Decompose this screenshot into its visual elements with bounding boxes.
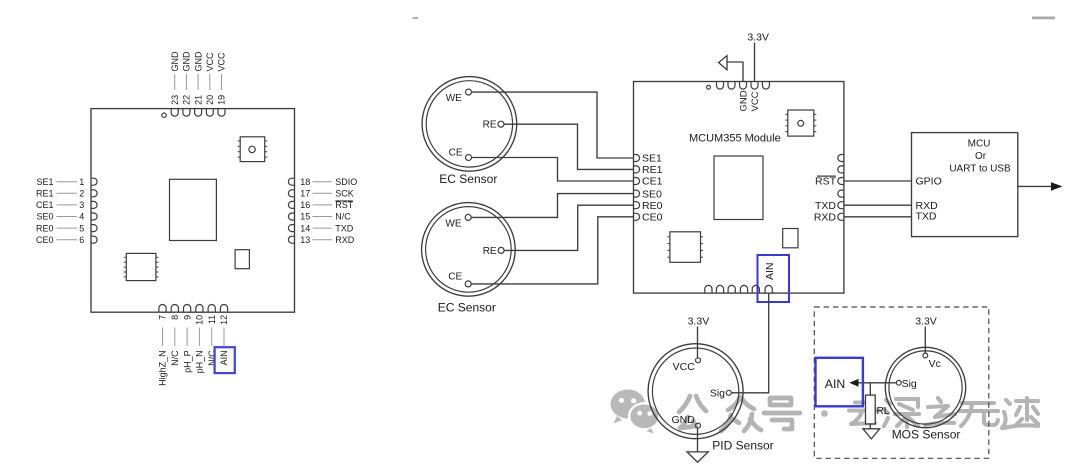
svg-text:EC Sensor: EC Sensor <box>438 301 496 315</box>
svg-text:AIN: AIN <box>764 263 776 281</box>
PID sensor body <box>648 344 743 439</box>
svg-text:CE: CE <box>448 272 462 283</box>
svg-text:GPIO: GPIO <box>916 176 942 188</box>
module left pin RE0 <box>634 200 663 212</box>
left chip pin 23 (GND) <box>170 51 180 116</box>
svg-text:19: 19 <box>217 95 227 105</box>
module left pin CE1 <box>634 176 663 188</box>
svg-text:CE0: CE0 <box>642 212 663 224</box>
module right pin row 1 <box>838 155 844 162</box>
left chip pin 21 (GND) <box>193 51 203 116</box>
3.3V supply to MOS Vc <box>915 316 937 353</box>
EC sensor 2 body <box>422 203 516 297</box>
svg-text:RXD: RXD <box>335 235 355 245</box>
MOS sensor terminal Sig <box>896 378 917 390</box>
svg-text:CE1: CE1 <box>642 176 663 188</box>
module right pin row 4 <box>838 190 844 197</box>
module bottom pin 4 <box>740 285 747 293</box>
MCU box title <box>949 138 1011 174</box>
svg-text:SE1: SE1 <box>36 177 53 187</box>
EC sensor 2 terminal CE <box>448 272 471 287</box>
left chip pin 1 indicator <box>162 113 166 117</box>
svg-text:WE: WE <box>445 218 461 229</box>
svg-text:RE0: RE0 <box>36 223 54 233</box>
svg-text:Sig: Sig <box>710 387 725 399</box>
svg-text:CE0: CE0 <box>36 235 54 245</box>
svg-text:21: 21 <box>193 95 203 105</box>
svg-text:RL: RL <box>877 406 890 417</box>
svg-text:SE0: SE0 <box>642 188 662 200</box>
MCU output arrow <box>1018 182 1063 191</box>
watermark dot <box>821 410 828 417</box>
svg-text:3: 3 <box>79 200 84 210</box>
svg-text:HighZ_N: HighZ_N <box>158 350 168 386</box>
module right pin row 3 <box>838 178 844 185</box>
left chip pin 2 (RE1) <box>36 189 97 199</box>
EC sensor 1 terminal RE <box>483 120 504 131</box>
wire module TXD to MCU RXD <box>844 204 912 206</box>
gray dash top left of right panel <box>413 17 419 19</box>
watermark char Wu <box>959 403 998 426</box>
left chip pin 6 (CE0) <box>36 235 97 245</box>
svg-text:SDIO: SDIO <box>335 177 357 187</box>
wire EC2 RE to RE0 <box>504 205 633 250</box>
svg-text:16: 16 <box>300 200 310 210</box>
module right pin row 6 <box>838 213 844 220</box>
wire EC2 WE to SE0 <box>471 194 633 218</box>
watermark char Yun <box>849 403 879 425</box>
svg-text:9: 9 <box>182 315 192 320</box>
module pin 1 indicator <box>707 85 711 89</box>
module left pin RE1 <box>634 164 663 176</box>
svg-text:RE: RE <box>483 120 497 131</box>
MOS sensor terminal Vc <box>923 353 941 370</box>
svg-text:CE: CE <box>449 148 463 159</box>
module internal main IC rectangle <box>714 156 763 220</box>
module bottom pin 6 <box>765 285 772 293</box>
PID sensor terminal VCC <box>673 358 701 373</box>
PID sensor terminal GND <box>671 414 700 428</box>
svg-text:13: 13 <box>300 235 310 245</box>
module left pin SE1 <box>634 153 663 165</box>
wire module RXD to MCU TXD <box>844 216 912 218</box>
module top pin 3 <box>740 82 747 90</box>
svg-text:pH_P: pH_P <box>182 350 192 373</box>
MCU / UART-to-USB box U3 <box>912 133 1018 237</box>
svg-text:CE1: CE1 <box>36 200 54 210</box>
svg-text:11: 11 <box>207 315 217 324</box>
module bottom pin 1 <box>705 285 712 293</box>
left chip internal main IC rectangle <box>170 179 217 240</box>
svg-text:MCUM355 Module: MCUM355 Module <box>689 133 781 145</box>
left chip pin 16 (RST) <box>288 200 353 210</box>
svg-text:1: 1 <box>79 177 84 187</box>
arrowhead into AIN box <box>849 379 858 387</box>
svg-text:RE1: RE1 <box>642 164 663 176</box>
left chip pin 9 (pH_P) <box>182 305 192 373</box>
wire EC2 CE to CE0 <box>471 217 633 284</box>
MCUM355 module body U2 <box>634 82 844 294</box>
wire EC1 WE to SE1 <box>472 92 634 158</box>
left chip pin 19 (VCC) <box>217 52 227 116</box>
module top pin 2 <box>728 82 735 90</box>
svg-text:5: 5 <box>79 223 84 233</box>
svg-text:6: 6 <box>79 235 84 245</box>
left chip pin 17 (SCK) <box>288 189 353 199</box>
svg-text:N/C: N/C <box>170 350 180 366</box>
svg-text:18: 18 <box>300 177 310 187</box>
svg-text:PID Sensor: PID Sensor <box>712 439 773 453</box>
wire module RST to MCU GPIO <box>844 180 912 182</box>
svg-text:VCC: VCC <box>673 361 696 373</box>
3.3V supply to module VCC <box>747 32 769 82</box>
module AIN highlight box <box>758 255 790 302</box>
left chip internal IC (top right, with dot) <box>238 137 268 162</box>
svg-text:TXD: TXD <box>916 210 937 222</box>
svg-text:4: 4 <box>79 212 84 222</box>
watermark char Zhi <box>925 398 955 425</box>
module internal IC (bottom left) <box>667 232 703 262</box>
svg-text:EC Sensor: EC Sensor <box>439 172 497 186</box>
left chip pin 5 (RE0) <box>36 223 97 233</box>
svg-text:N/C: N/C <box>335 212 351 222</box>
wire EC1 CE to CE1 <box>472 158 634 182</box>
module bottom pin 2 <box>716 285 723 293</box>
module bottom pin 5 <box>752 285 759 293</box>
svg-text:SE1: SE1 <box>642 153 662 165</box>
svg-text:GND: GND <box>671 414 695 426</box>
svg-text:8: 8 <box>170 315 180 320</box>
module top pin 5 <box>762 82 769 90</box>
svg-text:3.3V: 3.3V <box>747 32 769 44</box>
svg-text:12: 12 <box>219 315 229 325</box>
svg-text:VCC: VCC <box>205 52 215 72</box>
svg-text:RE: RE <box>483 246 497 257</box>
svg-text:GND: GND <box>182 51 192 72</box>
load resistor RL <box>866 383 890 429</box>
svg-text:Vc: Vc <box>929 358 941 370</box>
svg-text:3.3V: 3.3V <box>915 316 937 328</box>
left chip internal crystal rectangle <box>235 250 249 269</box>
left chip pin 12 (AIN) <box>219 305 229 366</box>
watermark char Gong <box>679 396 706 428</box>
svg-text:22: 22 <box>182 95 192 105</box>
MOS sensor dashed enclosure <box>814 307 989 458</box>
wire MOS Sig to AIN <box>858 382 896 384</box>
svg-text:2: 2 <box>79 189 84 199</box>
svg-text:RST: RST <box>815 176 837 188</box>
left chip pin 20 (VCC) <box>205 52 215 116</box>
watermark char Zhong <box>721 397 761 431</box>
wire PID GND down <box>697 428 699 452</box>
svg-text:GND: GND <box>739 90 750 111</box>
left chip pin 22 (GND) <box>182 51 192 116</box>
svg-text:MOS Sensor: MOS Sensor <box>892 427 961 441</box>
left chip internal IC (bottom left) <box>124 253 159 280</box>
svg-text:RXD: RXD <box>814 212 837 224</box>
svg-text:Sig: Sig <box>902 378 917 390</box>
left chip pin 8 (N/C) <box>170 305 180 366</box>
watermark char Shen <box>884 399 919 427</box>
watermark WeChat icon <box>611 390 660 434</box>
ground symbol PID <box>687 452 708 462</box>
left chip pin 4 (SE0) <box>36 212 97 222</box>
ground symbol MOS <box>863 429 880 439</box>
gray bar top right <box>1032 17 1055 20</box>
left chip pin 18 (SDIO) <box>288 177 357 187</box>
svg-text:20: 20 <box>205 95 215 105</box>
EC sensor 1 terminal CE <box>449 148 472 161</box>
left chip pin 14 (TXD) <box>288 223 353 233</box>
module top pin 4 <box>751 82 758 90</box>
module left pin SE0 <box>634 188 663 200</box>
3.3V supply to PID VCC <box>688 315 710 358</box>
svg-text:Or: Or <box>975 151 987 162</box>
left chip: module body U1 <box>91 109 295 313</box>
svg-text:AIN: AIN <box>825 377 846 391</box>
wire module AIN down to PID Sig <box>732 293 769 393</box>
svg-text:WE: WE <box>446 93 462 104</box>
module right pin row 2 <box>838 166 844 173</box>
svg-text:3.3V: 3.3V <box>688 315 710 327</box>
left chip pin 3 (CE1) <box>36 200 97 210</box>
svg-text:RE0: RE0 <box>642 200 663 212</box>
module right pin row 5 <box>838 202 844 209</box>
svg-text:VCC: VCC <box>750 91 761 111</box>
EC sensor 2 terminal WE <box>445 214 471 229</box>
svg-text:7: 7 <box>158 315 168 320</box>
module left pin CE0 <box>634 212 663 224</box>
EC sensor 1 body <box>422 77 517 172</box>
watermark char Hao <box>764 398 800 429</box>
EC sensor 1 terminal WE <box>446 89 472 104</box>
svg-text:14: 14 <box>300 223 310 233</box>
svg-text:17: 17 <box>300 189 310 199</box>
svg-text:pH_N: pH_N <box>195 350 205 373</box>
svg-text:RST: RST <box>335 200 354 210</box>
svg-text:TXD: TXD <box>815 200 836 212</box>
module bottom pin 3 <box>728 285 735 293</box>
left chip AIN highlight box <box>215 347 235 373</box>
left chip pin 11 (N/C) <box>207 305 217 366</box>
svg-text:TXD: TXD <box>335 223 354 233</box>
svg-text:15: 15 <box>300 212 310 222</box>
watermark char Ji <box>1002 398 1038 428</box>
left chip pin 1 (SE1) <box>36 177 97 187</box>
left chip pin 7 (HighZ_N) <box>158 305 168 386</box>
svg-text:SE0: SE0 <box>36 212 53 222</box>
svg-text:GND: GND <box>170 51 180 72</box>
MOS sensor body <box>885 347 965 427</box>
svg-text:MCU: MCU <box>968 138 991 149</box>
svg-text:SCK: SCK <box>335 189 354 199</box>
MOS AIN highlight box <box>816 358 863 407</box>
left chip pin 13 (RXD) <box>288 235 354 245</box>
svg-text:23: 23 <box>170 95 180 105</box>
svg-text:RE1: RE1 <box>36 189 54 199</box>
wire EC1 RE to RE1 <box>504 124 634 169</box>
module internal crystal rectangle <box>783 229 798 248</box>
left chip pin 15 (N/C) <box>288 212 351 222</box>
module top pin 1 <box>717 82 724 90</box>
svg-text:VCC: VCC <box>217 52 227 72</box>
svg-text:10: 10 <box>195 315 205 325</box>
antenna symbol on module GND <box>719 56 743 82</box>
EC sensor 2 terminal RE <box>483 246 504 257</box>
module RST pin label <box>815 176 837 188</box>
svg-text:UART to USB: UART to USB <box>949 164 1011 175</box>
module internal IC (top right, with dot) <box>785 110 816 136</box>
PID sensor terminal Sig <box>710 387 731 399</box>
svg-text:GND: GND <box>193 51 203 72</box>
svg-text:AIN: AIN <box>219 350 229 365</box>
left chip pin 10 (pH_N) <box>195 305 205 374</box>
